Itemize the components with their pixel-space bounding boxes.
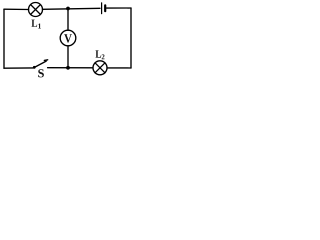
switch S — [33, 60, 48, 69]
wire left vertical — [3, 9, 5, 68]
wire bottom-right segment — [107, 67, 131, 69]
wire top-left segment — [4, 8, 29, 10]
label S — [38, 69, 44, 77]
wire top-right segment — [107, 7, 131, 9]
wire bottom-middle segment — [48, 67, 93, 69]
wire top-middle segment — [42, 8, 100, 9]
label L1 — [31, 20, 37, 27]
voltmeter U1 — [60, 30, 76, 46]
label V (voltmeter face) — [64, 34, 72, 42]
wire voltmeter branch upper — [67, 9, 69, 31]
wire right vertical — [130, 8, 132, 68]
label L2 — [95, 50, 101, 57]
lamp L1 — [29, 3, 43, 17]
lamp L2 — [93, 61, 107, 75]
node bottom junction — [66, 66, 70, 70]
wire bottom-left segment — [4, 67, 34, 69]
battery B1 — [102, 3, 106, 14]
wire voltmeter branch lower — [67, 46, 69, 68]
node top junction — [66, 7, 70, 11]
